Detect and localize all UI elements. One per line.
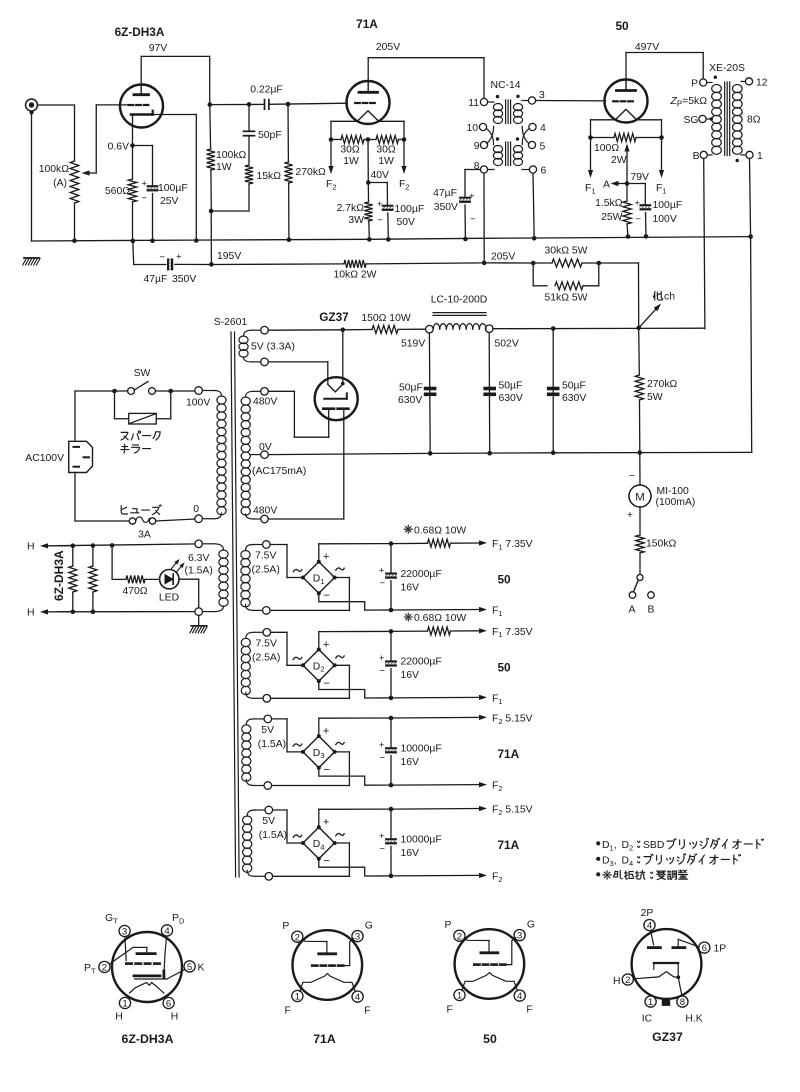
- resistor 2.7k 3W bias: [367, 183, 369, 203]
- label ac tilde left D1: [293, 569, 301, 571]
- T2 core: [724, 82, 726, 156]
- svg-text:4: 4: [164, 926, 170, 937]
- svg-text:H.K: H.K: [685, 1014, 702, 1025]
- wire 0.6V to bypass cap: [133, 145, 153, 147]
- pinout 6Z-DH3A lead pin4 to diode plate: [164, 936, 166, 970]
- wire terminal 3 to 50 grid: [536, 100, 606, 102]
- pinout 6Z-DH3A pin2: [99, 961, 110, 972]
- svg-text:−: −: [323, 678, 330, 690]
- svg-text:MI-100: MI-100: [657, 486, 690, 497]
- svg-text:G: G: [527, 919, 535, 930]
- wire parallel to ftbch node: [599, 262, 639, 264]
- LED D5: [160, 570, 179, 589]
- filament winding for D3: [264, 715, 272, 723]
- pinout 6Z-DH3A triode plate: [137, 952, 155, 955]
- pinout 50 grid dashes: [474, 963, 479, 966]
- pinout 50 pin1: [454, 989, 465, 1000]
- resistor 0.68ohm 10W D2: [391, 630, 428, 632]
- svg-text:205V: 205V: [376, 42, 400, 53]
- pinout GZ37 pin6: [699, 942, 710, 953]
- input jack J1: [26, 99, 38, 111]
- node 50pF tap: [247, 102, 252, 107]
- resistor 270k grid leak: [287, 104, 289, 162]
- spark killer branch wires: [114, 391, 116, 419]
- meter MI-100: [629, 485, 651, 507]
- svg-text:−: −: [635, 214, 641, 225]
- node 50 hum rail left: [588, 135, 593, 140]
- svg-text:F2 5.15V: F2 5.15V: [492, 805, 533, 817]
- capacitor 47uF 350V decoupling: [459, 197, 471, 199]
- T3 HV secondary 480-0-480: [261, 388, 269, 396]
- node spark killer left: [112, 389, 117, 394]
- svg-text:0.22µF: 0.22µF: [250, 85, 283, 96]
- svg-text:+: +: [469, 191, 475, 202]
- pinout 50 pin3: [514, 930, 525, 941]
- svg-text:ch: ch: [664, 292, 675, 303]
- wire heater bottom line: [58, 611, 195, 613]
- wire diode to ground bus: [153, 114, 197, 116]
- svg-text:50µF: 50µF: [562, 381, 586, 392]
- potentiometer 100k(A) VR1: [74, 105, 76, 161]
- resistor 270k 5W bleeder: [638, 328, 641, 375]
- svg-text:22000µF: 22000µF: [401, 657, 442, 668]
- pinout 71A pin3: [352, 931, 363, 942]
- svg-text:+: +: [176, 252, 182, 263]
- wire heater top line: [58, 544, 199, 546]
- wire choke out to B and ftbch: [493, 327, 705, 330]
- wire junction into filament: [342, 330, 344, 384]
- pinout 6Z-DH3A pin4: [161, 925, 172, 936]
- wire terminal 8 to 205V node: [483, 173, 485, 263]
- arrow minus output D3: [391, 784, 479, 787]
- junction dots on 0V bus: [428, 451, 433, 456]
- svg-text:22000µF: 22000µF: [401, 569, 442, 580]
- T1 terminal 3: [528, 97, 535, 104]
- svg-text:(1.5A): (1.5A): [185, 566, 213, 577]
- pinout 6Z-DH3A lead pin3 to grid: [125, 937, 126, 961]
- svg-text:150Ω 10W: 150Ω 10W: [361, 313, 411, 324]
- svg-text:630V: 630V: [398, 395, 422, 406]
- wire terminal 6 down to bus: [533, 173, 534, 238]
- arrow H top: [48, 545, 75, 547]
- svg-text:−: −: [323, 590, 330, 602]
- V3 grid dashes: [613, 100, 618, 102]
- svg-text:270kΩ: 270kΩ: [647, 379, 678, 390]
- T2 terminal 1: [746, 151, 753, 158]
- svg-text:5V: 5V: [261, 725, 274, 736]
- switch contact A: [629, 592, 636, 599]
- wire minus path D2: [319, 681, 391, 698]
- node hum rail left: [329, 137, 334, 142]
- ground under 6.3V winding: [198, 615, 200, 625]
- svg-text:+: +: [379, 653, 385, 664]
- svg-text:51kΩ 5W: 51kΩ 5W: [545, 293, 588, 304]
- capacitor 22000µF D2: [390, 631, 392, 660]
- V2 grid dashes: [355, 102, 360, 104]
- wire plus rail D4: [318, 809, 320, 827]
- svg-text:−: −: [379, 578, 385, 589]
- capacitor 100uF 50V: [382, 205, 394, 207]
- svg-text:6Z-DH3A: 6Z-DH3A: [122, 1032, 174, 1046]
- svg-text:LC-10-200D: LC-10-200D: [431, 295, 488, 306]
- svg-text:50: 50: [615, 19, 629, 33]
- svg-text:7.5V: 7.5V: [256, 638, 277, 649]
- svg-text:100kΩ: 100kΩ: [39, 164, 70, 175]
- svg-text:(100mA): (100mA): [656, 497, 696, 508]
- svg-text:XE-20S: XE-20S: [709, 63, 745, 74]
- filament winding for D2: [263, 629, 271, 637]
- svg-text:50µF: 50µF: [499, 381, 523, 392]
- svg-text:F: F: [284, 1006, 290, 1017]
- wire 502V node down to cap2: [488, 333, 491, 454]
- svg-text:5: 5: [187, 962, 192, 973]
- svg-text:25V: 25V: [160, 196, 179, 207]
- svg-text:2: 2: [457, 931, 462, 942]
- svg-text:H: H: [613, 976, 621, 987]
- wire junction to 15k bottom: [211, 210, 249, 212]
- svg-text:+: +: [323, 725, 330, 737]
- svg-text:502V: 502V: [495, 339, 519, 350]
- pinout 6Z-DH3A pin6: [163, 997, 174, 1008]
- wire LED to winding bottom: [179, 578, 199, 580]
- label ac tilde right D1: [336, 568, 344, 570]
- T1 right crossover: [522, 129, 529, 145]
- wire minus path D3: [319, 768, 391, 786]
- svg-text:1: 1: [295, 992, 300, 1003]
- svg-text:−: −: [379, 666, 385, 677]
- node spark killer right: [168, 389, 173, 394]
- label ac tilde right D4: [336, 833, 344, 835]
- svg-text:−: −: [629, 471, 635, 482]
- wire 519V node down to cap1: [428, 333, 431, 453]
- T3 primary winding 100V: [195, 387, 203, 395]
- svg-text:0V: 0V: [259, 442, 272, 453]
- svg-text:30kΩ 5W: 30kΩ 5W: [545, 246, 588, 257]
- wire winding bottom to bridge D4 right: [273, 875, 350, 877]
- svg-text:+: +: [377, 199, 383, 210]
- T1 terminal 9: [480, 141, 487, 148]
- svg-text:3: 3: [355, 932, 360, 943]
- T1 primary upper coil: [488, 101, 494, 103]
- svg-text:A: A: [629, 605, 636, 616]
- node minus cap D2: [389, 696, 394, 701]
- svg-text:2W: 2W: [611, 155, 627, 166]
- V3 filament wires to hum pot rail: [591, 119, 616, 121]
- wire 97V plate line: [140, 56, 142, 84]
- wire winding bottom to bridge D2 right: [271, 697, 350, 699]
- svg-text:195V: 195V: [217, 251, 241, 262]
- wire plus rail D1: [318, 544, 320, 562]
- node minus cap D3: [389, 783, 394, 788]
- wire plus rail D2: [318, 632, 320, 650]
- node minus cap D1: [389, 608, 394, 613]
- svg-text:SW: SW: [134, 368, 151, 379]
- resistor 30ohm left: [331, 139, 341, 141]
- pinout GZ37 lead pin6 to plate: [677, 939, 679, 946]
- arrow plus output D4: [391, 808, 479, 811]
- svg-text:−: −: [159, 252, 165, 263]
- svg-text:2P: 2P: [641, 908, 654, 919]
- T3 5V 3.3A winding for GZ37: [261, 326, 269, 334]
- wire jack sleeve down: [31, 111, 33, 241]
- svg-text:71A: 71A: [313, 1032, 336, 1046]
- pinout 71A envelope: [293, 930, 363, 1000]
- svg-text:10000µF: 10000µF: [401, 744, 442, 755]
- wire down to 195V line: [210, 211, 212, 264]
- resistor 10k 2W dropper: [344, 260, 366, 268]
- svg-text:(2.5A): (2.5A): [252, 565, 280, 576]
- svg-text:GZ37: GZ37: [319, 310, 349, 324]
- svg-text:100kΩ: 100kΩ: [216, 150, 247, 161]
- T2 terminal B: [700, 151, 707, 158]
- wire V3 plate to OPT P: [625, 53, 627, 80]
- pinout GZ37 lead to pin8: [678, 977, 682, 996]
- svg-text:6Z-DH3A: 6Z-DH3A: [115, 25, 165, 39]
- svg-text:4: 4: [647, 921, 653, 932]
- resistor 100k 1W plate load: [209, 105, 212, 149]
- V2 filament: [357, 111, 378, 122]
- heater element left: [71, 543, 76, 548]
- wire winding top to bridge D3 left: [272, 718, 287, 720]
- resistor 1.5k 25W bias of 50: [626, 184, 628, 202]
- svg-text:H: H: [27, 608, 35, 619]
- T2 terminal 12: [745, 78, 752, 85]
- tube V4 GZ37 envelope: [315, 377, 358, 420]
- svg-text:0: 0: [193, 504, 199, 515]
- svg-text:5V: 5V: [262, 816, 275, 827]
- svg-text:50µF: 50µF: [399, 383, 423, 394]
- capacitor 50uF 630V no3: [547, 387, 559, 390]
- svg-text:12: 12: [756, 78, 768, 89]
- node 502V-cap3: [551, 326, 556, 331]
- resistor 0.68ohm 10W D1: [391, 542, 428, 544]
- svg-text:497V: 497V: [635, 42, 659, 53]
- label ac tilde right D2: [336, 656, 344, 658]
- svg-text:4: 4: [540, 123, 546, 134]
- resistor 51k 5W: [532, 263, 534, 286]
- pinout 50 plate lead: [464, 939, 489, 941]
- capacitor 100uF 25V bypass: [147, 185, 159, 187]
- node parallel right: [597, 261, 602, 266]
- V3 plate: [617, 89, 636, 92]
- V1 grid dashes: [129, 104, 134, 106]
- pinout 50 plate: [481, 951, 498, 954]
- svg-text:50: 50: [483, 1032, 497, 1046]
- svg-text:−: −: [379, 753, 385, 764]
- pinout GZ37 envelope: [632, 929, 702, 999]
- arrow H bottom: [48, 611, 75, 613]
- svg-text:350V: 350V: [172, 274, 196, 285]
- svg-text:100µF: 100µF: [158, 183, 188, 194]
- svg-text:+: +: [323, 551, 330, 563]
- T1 secondary lower coil: [513, 146, 522, 153]
- transformer T3 core: [231, 332, 236, 877]
- capacitor 50uF 630V no2: [484, 387, 496, 390]
- svg-text:2.7kΩ: 2.7kΩ: [337, 203, 365, 214]
- svg-text:100µF: 100µF: [653, 200, 683, 211]
- arrow F1 right under 50: [661, 138, 663, 171]
- wire 150k to switch pole: [639, 553, 641, 575]
- label spark killer: [121, 432, 128, 440]
- meter MI-100 branch wire upper: [639, 453, 641, 485]
- wire meter to 150k: [639, 507, 641, 535]
- pinout 71A pin1: [292, 990, 303, 1001]
- node on 195V line: [209, 262, 214, 267]
- svg-text:B: B: [648, 605, 655, 616]
- label 0.68ohm 10W D2: [404, 613, 412, 621]
- pinout GZ37 IC square: [662, 999, 669, 1006]
- wire 5V bottom to filament left: [268, 361, 328, 363]
- T1 terminal 4: [529, 123, 536, 130]
- label 0.68ohm 10W D1: [404, 525, 412, 533]
- svg-text:6: 6: [702, 943, 707, 954]
- label ac tilde left D2: [293, 657, 301, 659]
- svg-text:−: −: [377, 215, 383, 226]
- svg-text:P: P: [444, 920, 451, 931]
- svg-text:71A: 71A: [498, 838, 520, 852]
- V1 plate: [134, 93, 149, 96]
- pinout 6Z-DH3A envelope: [112, 932, 182, 1002]
- T1 primary lower coil: [493, 146, 502, 153]
- wire plus rail D3: [318, 718, 320, 736]
- svg-text:10: 10: [466, 123, 478, 134]
- svg-text:3W: 3W: [348, 215, 364, 226]
- switch contact B: [648, 592, 655, 599]
- T1 terminal 11: [480, 98, 487, 105]
- wire 0.22uF to 71A grid: [269, 103, 347, 104]
- svg-text:480V: 480V: [253, 397, 277, 408]
- V1 diode plate and cathode: [131, 113, 151, 116]
- T1 left crossover: [486, 129, 493, 145]
- svg-text:+: +: [379, 740, 385, 751]
- label ac tilde left D4: [293, 835, 301, 837]
- node plus cap D2: [389, 629, 394, 634]
- note D3 D4 bridge diode: [597, 854, 741, 868]
- feedback arrow ftbch: [639, 309, 656, 328]
- svg-text:10kΩ 2W: 10kΩ 2W: [334, 270, 377, 281]
- node 15k junction: [209, 209, 214, 214]
- svg-text:9: 9: [474, 141, 480, 152]
- pinout GZ37 filament: [633, 972, 678, 979]
- svg-text:6.3V: 6.3V: [188, 553, 209, 564]
- pinout GZ37 pin2: [622, 974, 633, 985]
- wire signal line to 0.22uF: [210, 103, 264, 105]
- capacitor 10000µF D3: [390, 718, 392, 748]
- svg-text:LED: LED: [159, 593, 179, 604]
- svg-text:SG: SG: [683, 115, 698, 126]
- svg-text:B: B: [693, 151, 700, 162]
- pinout 6Z-DH3A pin3: [119, 925, 130, 936]
- svg-text:6: 6: [541, 166, 547, 177]
- V4 plates: [323, 407, 334, 410]
- svg-text:F: F: [447, 1005, 453, 1016]
- svg-text:480V: 480V: [253, 506, 277, 517]
- arrow plus output D1: [451, 542, 480, 544]
- resistor 15k: [245, 165, 253, 184]
- svg-text:1W: 1W: [343, 156, 359, 167]
- svg-text:+: +: [627, 510, 633, 521]
- svg-text:F2 5.15V: F2 5.15V: [492, 714, 533, 726]
- wire 195V to 10k: [211, 263, 344, 266]
- svg-text:1P: 1P: [714, 944, 727, 955]
- bridge rectifier D1: [303, 562, 335, 594]
- capacitor 22000µF D1: [390, 544, 392, 573]
- wire mains top: [75, 390, 128, 392]
- svg-text:ZP=5kΩ: ZP=5kΩ: [669, 96, 707, 108]
- node hum rail center: [366, 137, 371, 142]
- svg-text:1: 1: [648, 997, 653, 1008]
- arrow to A: [619, 183, 628, 185]
- wire minus path D4: [319, 859, 391, 876]
- arrow F2 left: [330, 140, 332, 167]
- svg-text:16V: 16V: [401, 582, 420, 593]
- wire winding top to bridge D2 left: [271, 631, 287, 633]
- svg-text:0.68Ω 10W: 0.68Ω 10W: [414, 613, 466, 624]
- svg-text:(1.5A): (1.5A): [259, 830, 287, 841]
- node 50 hum rail right: [659, 135, 664, 140]
- node plate-coupling junction: [208, 102, 213, 107]
- svg-text:5W: 5W: [647, 392, 663, 403]
- svg-text:11: 11: [468, 98, 479, 109]
- svg-text:30Ω: 30Ω: [376, 145, 396, 156]
- tube V3 50 envelope: [605, 80, 648, 123]
- V2 filament wires to hum rail: [331, 120, 357, 122]
- svg-text:+: +: [379, 831, 385, 842]
- label ac tilde left D3: [293, 744, 301, 746]
- capacitor 50pF: [248, 104, 250, 130]
- svg-text:−: −: [470, 214, 476, 225]
- V4 cathode: [324, 398, 347, 400]
- pinout GZ37 pin8: [677, 996, 688, 1007]
- svg-text:4: 4: [355, 992, 361, 1003]
- V2 plate: [359, 91, 378, 94]
- svg-text:50V: 50V: [397, 217, 416, 228]
- wire plug bottom to fuse: [74, 473, 76, 522]
- T1 polarity dots: [496, 95, 499, 98]
- pinout 6Z-DH3A pin5: [184, 961, 195, 972]
- svg-text:270kΩ: 270kΩ: [296, 167, 327, 178]
- wire terminal 1 down to common bus: [750, 159, 751, 237]
- node plus cap D4: [389, 807, 394, 812]
- svg-text:3: 3: [539, 90, 545, 101]
- T3 6.3V winding: [195, 540, 203, 548]
- note adjust resistors: [597, 870, 688, 879]
- svg-text:2: 2: [625, 975, 630, 986]
- svg-text:F1 7.35V: F1 7.35V: [492, 627, 533, 639]
- svg-text:5: 5: [540, 142, 546, 153]
- arrow F1 left under 50: [590, 138, 592, 171]
- wire 40V to bypass cap: [368, 182, 387, 184]
- svg-text:71A: 71A: [498, 747, 520, 761]
- svg-text:F: F: [526, 1005, 532, 1016]
- heater element right: [91, 543, 96, 548]
- svg-text:(2.5A): (2.5A): [252, 652, 280, 663]
- svg-text:6: 6: [166, 999, 171, 1010]
- svg-text:3: 3: [517, 931, 522, 942]
- AC plug: [69, 441, 93, 472]
- svg-text:4: 4: [517, 991, 523, 1002]
- node hum rail right: [402, 137, 407, 142]
- svg-text:D1,: D1,: [602, 840, 617, 852]
- svg-text:F1 7.35V: F1 7.35V: [492, 539, 533, 551]
- svg-text:1W: 1W: [378, 156, 394, 167]
- svg-text:0.68Ω 10W: 0.68Ω 10W: [414, 525, 466, 536]
- node GZ37 cathode output: [341, 328, 346, 333]
- pinout GZ37 pin4: [644, 920, 655, 931]
- pinout GZ37 lead pin4 to plate: [651, 931, 654, 945]
- V4 filament V: [328, 384, 343, 392]
- wire V2 plate to 205V corner: [367, 58, 369, 82]
